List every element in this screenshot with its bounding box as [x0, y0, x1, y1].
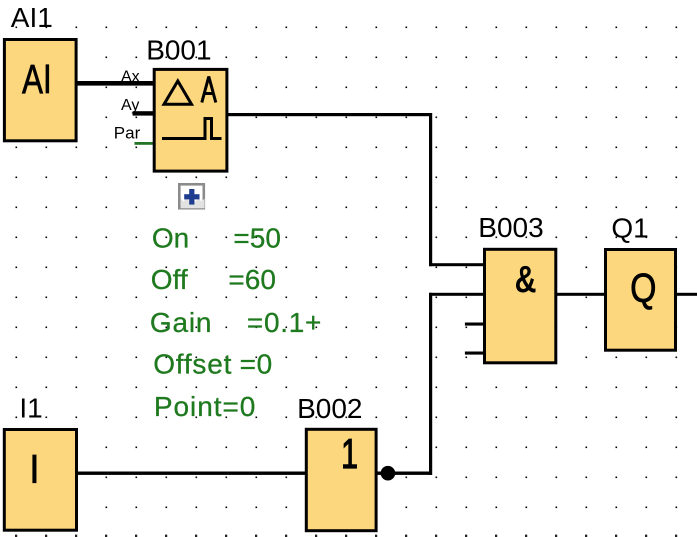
svg-text:Off: Off — [151, 264, 188, 295]
svg-text:1: 1 — [341, 430, 358, 477]
svg-text:B003: B003 — [478, 212, 543, 243]
svg-text:=60: =60 — [228, 264, 276, 295]
svg-text:&: & — [515, 259, 537, 301]
svg-text:I: I — [29, 446, 40, 492]
svg-text:B002: B002 — [297, 393, 362, 424]
svg-text:Gain: Gain — [150, 307, 212, 338]
svg-text:On: On — [152, 223, 189, 254]
svg-text:I1: I1 — [19, 392, 42, 423]
svg-text:Q1: Q1 — [611, 213, 648, 244]
svg-text:Ax: Ax — [121, 68, 140, 85]
svg-text:=0: =0 — [240, 349, 273, 380]
svg-text:Par: Par — [114, 124, 141, 143]
svg-text:=0.1+: =0.1+ — [247, 307, 322, 338]
svg-text:Point=0: Point=0 — [154, 391, 256, 422]
svg-text:B001: B001 — [146, 34, 211, 65]
svg-text:Offset: Offset — [153, 349, 232, 380]
svg-text:AI1: AI1 — [11, 2, 53, 33]
svg-text:Ay: Ay — [121, 97, 139, 114]
svg-text:AI: AI — [22, 56, 52, 102]
svg-text:=50: =50 — [233, 223, 281, 254]
svg-text:Q: Q — [630, 265, 656, 311]
